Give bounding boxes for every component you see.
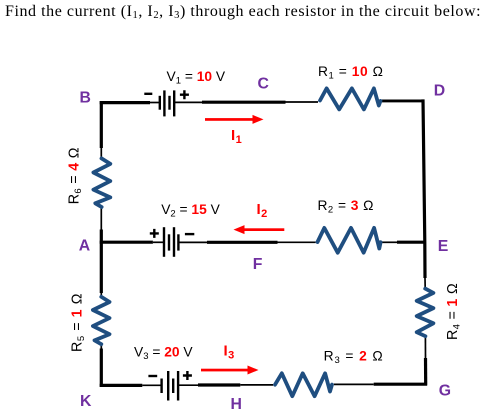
battery V1 <box>144 90 189 116</box>
svg-text:V1 = 10 V: V1 = 10 V <box>167 69 226 87</box>
svg-text:G: G <box>439 383 451 400</box>
wire right vertical D-E-G <box>423 99 426 385</box>
svg-text:C: C <box>258 75 269 92</box>
battery V2 <box>150 227 195 257</box>
current arrow I3 <box>201 366 259 375</box>
svg-text:B: B <box>80 90 91 107</box>
resistor R5 zigzag <box>93 297 110 344</box>
svg-text:R5 = 1 Ω: R5 = 1 Ω <box>70 293 88 352</box>
svg-text:F: F <box>253 256 263 273</box>
svg-text:R4 = 1 Ω: R4 = 1 Ω <box>445 283 463 340</box>
svg-text:A: A <box>79 237 90 254</box>
svg-text:I3: I3 <box>224 343 235 362</box>
svg-text:V3 = 20 V: V3 = 20 V <box>134 344 193 362</box>
svg-text:R2 = 3 Ω: R2 = 3 Ω <box>318 198 374 216</box>
resistor R3 zigzag <box>275 373 332 396</box>
title text <box>5 3 481 21</box>
wire top B-C-D <box>100 101 425 103</box>
svg-text:H: H <box>231 396 242 413</box>
svg-text:V2 = 15 V: V2 = 15 V <box>161 202 220 220</box>
svg-text:R6 = 4 Ω: R6 = 4 Ω <box>67 147 85 204</box>
svg-text:K: K <box>80 393 92 410</box>
resistor R4 zigzag <box>417 289 434 337</box>
wire middle A-F-E <box>100 241 426 244</box>
resistor R6 zigzag <box>93 158 110 207</box>
svg-text:R1 = 10 Ω: R1 = 10 Ω <box>318 64 383 82</box>
resistor R1 zigzag <box>320 88 381 109</box>
wire left vertical B-A-K <box>100 101 103 387</box>
svg-text:I1: I1 <box>231 127 242 146</box>
svg-text:R3 = 2 Ω: R3 = 2 Ω <box>324 349 384 367</box>
current arrow I1 <box>205 115 264 124</box>
wire bottom K-H-G <box>100 384 427 385</box>
current arrow I2 <box>234 225 285 234</box>
resistor R2 zigzag <box>318 228 381 253</box>
svg-text:I2: I2 <box>257 201 268 220</box>
battery V3 <box>148 371 192 401</box>
svg-text:D: D <box>434 83 445 100</box>
svg-text:E: E <box>438 238 449 255</box>
